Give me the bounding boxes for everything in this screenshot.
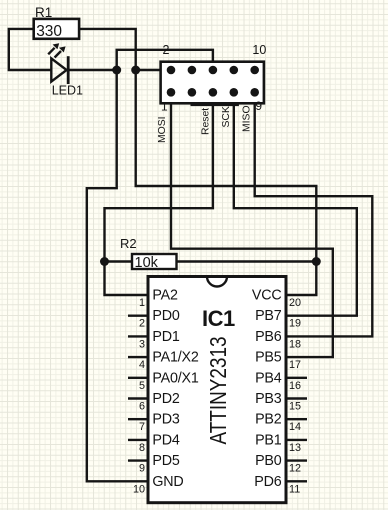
svg-text:11: 11 [289,483,300,495]
svg-text:7: 7 [139,421,145,433]
svg-text:2: 2 [139,318,145,330]
svg-text:PB5: PB5 [255,350,282,366]
svg-text:1: 1 [161,100,168,114]
svg-text:10k: 10k [135,255,159,271]
svg-text:15: 15 [289,401,301,413]
svg-text:9: 9 [255,99,262,113]
svg-text:PD2: PD2 [152,391,179,407]
svg-text:PD0: PD0 [152,308,179,324]
svg-text:10: 10 [133,483,145,495]
svg-text:PB6: PB6 [255,329,282,345]
svg-text:2: 2 [163,43,170,57]
svg-text:PD4: PD4 [152,432,179,448]
svg-text:MOSI: MOSI [157,116,168,143]
svg-text:20: 20 [289,297,301,309]
svg-text:330: 330 [36,23,62,40]
svg-text:LED1: LED1 [52,83,83,97]
svg-text:PA0/X1: PA0/X1 [152,370,198,386]
svg-text:PB4: PB4 [255,370,282,386]
svg-text:12: 12 [289,463,301,475]
svg-text:ATTINY2313: ATTINY2313 [205,337,231,445]
svg-text:SCK: SCK [221,106,232,127]
svg-text:PB0: PB0 [255,453,282,469]
svg-text:6: 6 [139,401,145,413]
svg-text:PD1: PD1 [152,329,179,345]
svg-text:PD3: PD3 [152,412,179,428]
svg-text:IC1: IC1 [202,306,235,331]
svg-text:13: 13 [289,442,301,454]
svg-text:3: 3 [139,338,145,350]
svg-text:18: 18 [289,338,301,350]
svg-text:GND: GND [152,474,183,490]
svg-text:19: 19 [289,318,301,330]
svg-text:VCC: VCC [252,288,282,304]
svg-text:10: 10 [252,43,266,57]
svg-text:9: 9 [139,463,145,475]
svg-text:17: 17 [289,359,301,371]
svg-text:1: 1 [139,297,145,309]
svg-text:MISO: MISO [242,105,253,132]
svg-text:14: 14 [289,421,301,433]
svg-text:5: 5 [139,380,145,392]
svg-text:PB2: PB2 [255,412,282,428]
svg-text:16: 16 [289,380,301,392]
svg-text:R2: R2 [120,236,137,251]
svg-text:R1: R1 [35,5,52,20]
svg-text:PD5: PD5 [152,453,179,469]
svg-text:Reset: Reset [201,108,212,135]
svg-text:PA1/X2: PA1/X2 [152,350,198,366]
svg-text:4: 4 [139,359,145,371]
svg-text:PB3: PB3 [255,391,282,407]
svg-text:8: 8 [139,442,145,454]
svg-text:PD6: PD6 [254,474,281,490]
svg-text:PA2: PA2 [152,288,178,304]
svg-text:PB1: PB1 [255,432,282,448]
svg-text:PB7: PB7 [255,308,282,324]
